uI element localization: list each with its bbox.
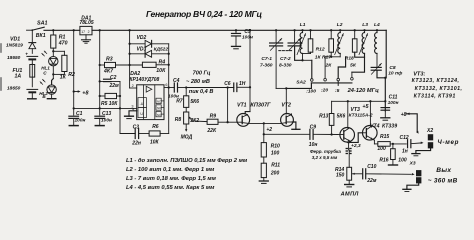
svg-text:Генератор ВЧ 0,24 - 120 МГц: Генератор ВЧ 0,24 - 120 МГц bbox=[146, 9, 262, 19]
svg-text:L4: L4 bbox=[374, 22, 380, 28]
svg-text:NC: NC bbox=[157, 106, 161, 110]
svg-text:22н: 22н bbox=[131, 141, 141, 147]
svg-text:АМПЛ: АМПЛ bbox=[340, 191, 359, 197]
node VT3 emitter bbox=[349, 141, 351, 142]
wire R14 wiper to C10 bbox=[352, 173, 362, 175]
svg-text:U: U bbox=[140, 112, 143, 116]
wire pin2 vertical bbox=[129, 30, 131, 65]
svg-text:R10: R10 bbox=[271, 143, 280, 149]
svg-text:R2: R2 bbox=[68, 72, 75, 78]
wire +8 bus bbox=[74, 107, 137, 109]
svg-text:КТ3114, КТ391: КТ3114, КТ391 bbox=[414, 94, 456, 100]
svg-text:~ 280 мВ: ~ 280 мВ bbox=[186, 79, 210, 85]
ground DA1 bbox=[85, 35, 87, 40]
wire to VT4 base bbox=[350, 133, 362, 143]
svg-text:С5: С5 bbox=[244, 29, 251, 35]
svg-text:NC: NC bbox=[157, 100, 161, 104]
wire tank3 bottom bbox=[355, 52, 365, 57]
svg-text:1К: 1К bbox=[60, 75, 67, 81]
wire C6 node vertical bbox=[227, 88, 229, 123]
wire +5 top bus bbox=[44, 29, 80, 31]
svg-text:VT3:: VT3: bbox=[413, 71, 425, 77]
svg-text:С6: С6 bbox=[224, 81, 231, 87]
switch SA2 contact 3 bbox=[338, 57, 345, 79]
svg-text:100: 100 bbox=[271, 150, 280, 156]
svg-text:пик 0,4 В: пик 0,4 В bbox=[189, 89, 214, 95]
svg-text:10К: 10К bbox=[109, 101, 119, 107]
svg-text:Ферр. трубка: Ферр. трубка bbox=[310, 148, 341, 154]
svg-text:78L05: 78L05 bbox=[80, 20, 94, 26]
svg-text:КД522: КД522 bbox=[154, 47, 169, 53]
wire feedback up bbox=[168, 88, 170, 134]
svg-text:С: С bbox=[43, 71, 47, 76]
svg-text:5К6: 5К6 bbox=[190, 99, 199, 105]
svg-text::20: :20 bbox=[321, 88, 328, 94]
svg-text:R17: R17 bbox=[322, 54, 331, 60]
label МОД bbox=[185, 124, 187, 131]
svg-text:100: 100 bbox=[398, 157, 407, 163]
svg-text:+: + bbox=[25, 52, 28, 57]
svg-text:10 пф: 10 пф bbox=[388, 69, 403, 76]
svg-text:24-120 МГц: 24-120 МГц bbox=[347, 88, 380, 94]
wire switch to diode bbox=[31, 30, 33, 41]
svg-text:L1: L1 bbox=[300, 22, 306, 28]
svg-text:VD1: VD1 bbox=[10, 36, 20, 42]
svg-text:200: 200 bbox=[270, 170, 280, 176]
svg-text:R6: R6 bbox=[152, 124, 159, 130]
svg-text:R16: R16 bbox=[379, 157, 388, 163]
svg-text:L3: L3 bbox=[362, 22, 368, 28]
wire VT3 collector bbox=[347, 101, 349, 128]
ground HL2 bbox=[51, 94, 53, 98]
wire DA1 out vertical bbox=[99, 30, 101, 108]
svg-text:2: 2 bbox=[88, 30, 90, 34]
svg-text:1н: 1н bbox=[402, 149, 408, 155]
ground R14 bbox=[348, 180, 350, 184]
wire R5C2 vertical bbox=[119, 81, 121, 133]
svg-text:100н: 100н bbox=[388, 100, 399, 106]
svg-text:ВК1: ВК1 bbox=[36, 33, 46, 39]
wire VT1 drain bbox=[249, 30, 251, 111]
svg-text::100: :100 bbox=[306, 88, 316, 94]
svg-text:КП307Г: КП307Г bbox=[250, 103, 271, 109]
svg-text::5: :5 bbox=[335, 88, 340, 94]
svg-text:R18: R18 bbox=[345, 56, 354, 62]
switch SA2 contact 2 bbox=[324, 78, 327, 81]
svg-text:5К6: 5К6 bbox=[337, 114, 346, 120]
svg-text:Вых: Вых bbox=[436, 167, 451, 174]
wire +8 vertical bbox=[73, 30, 75, 108]
svg-text:22К: 22К bbox=[206, 128, 217, 134]
wire L4 to C8 bbox=[376, 54, 378, 68]
svg-text:-U: -U bbox=[140, 102, 144, 106]
wire right rail bbox=[384, 30, 387, 111]
svg-text:1К: 1К bbox=[315, 54, 322, 60]
svg-text:18650: 18650 bbox=[7, 86, 21, 92]
ground X3 bbox=[407, 183, 419, 190]
wire source line bbox=[248, 122, 281, 124]
svg-text:17: 17 bbox=[81, 30, 85, 34]
svg-text:С2: С2 bbox=[110, 75, 117, 81]
svg-text:+2,3: +2,3 bbox=[351, 143, 361, 149]
svg-text:6: 6 bbox=[165, 83, 167, 87]
svg-text:R13: R13 bbox=[319, 114, 328, 120]
svg-text:R9: R9 bbox=[210, 113, 217, 119]
svg-text:1А: 1А bbox=[15, 74, 22, 80]
svg-text:МОД: МОД bbox=[181, 135, 193, 141]
svg-text:1N5819: 1N5819 bbox=[6, 43, 23, 49]
svg-text:3,2 х 9,5 мм: 3,2 х 9,5 мм bbox=[312, 155, 338, 160]
ground VT2 source bbox=[292, 122, 296, 129]
svg-text:R11: R11 bbox=[271, 162, 280, 168]
svg-text:КТ339: КТ339 bbox=[382, 124, 397, 130]
svg-text:VT3: VT3 bbox=[350, 107, 360, 113]
svg-text:С7-1: С7-1 bbox=[261, 56, 272, 62]
coupling dashed bbox=[279, 50, 292, 52]
svg-text:С7-2: С7-2 bbox=[280, 56, 291, 62]
svg-text:22м: 22м bbox=[109, 83, 120, 89]
svg-text:R8: R8 bbox=[175, 117, 182, 123]
switch SA2 contact 1 bbox=[311, 79, 314, 82]
ground X2 bbox=[416, 148, 431, 154]
svg-text:R7: R7 bbox=[176, 99, 183, 105]
svg-text:NC: NC bbox=[157, 113, 161, 117]
svg-text:4К7: 4К7 bbox=[103, 68, 114, 74]
svg-text:470: 470 bbox=[58, 40, 68, 46]
svg-text:КТ3123, КТ3124,: КТ3123, КТ3124, bbox=[412, 78, 460, 84]
svg-text:18650: 18650 bbox=[7, 55, 21, 61]
svg-text:КТ3132, КТ3101,: КТ3132, КТ3101, bbox=[415, 86, 463, 92]
svg-text:10н: 10н bbox=[309, 142, 318, 148]
svg-text:2К: 2К bbox=[325, 63, 333, 69]
svg-text:10К: 10К bbox=[150, 140, 160, 146]
wire VT4 collector bbox=[369, 101, 371, 126]
wire VT2 drain bbox=[290, 113, 292, 116]
svg-text:Х2: Х2 bbox=[426, 128, 433, 134]
svg-text:+8: +8 bbox=[82, 90, 88, 96]
svg-text:R12: R12 bbox=[316, 46, 325, 52]
svg-text:7-360: 7-360 bbox=[260, 63, 273, 69]
svg-text:150: 150 bbox=[336, 172, 345, 178]
svg-text:С8: С8 bbox=[389, 65, 396, 71]
svg-text:22м: 22м bbox=[366, 178, 377, 184]
svg-text:+2: +2 bbox=[266, 127, 272, 133]
svg-text:~ 360 мВ: ~ 360 мВ bbox=[428, 178, 458, 185]
svg-text:Х3: Х3 bbox=[409, 160, 416, 166]
svg-text:С11: С11 bbox=[389, 95, 398, 101]
switch SA2 contact 4 bbox=[352, 57, 365, 72]
svg-text:Ч-мер: Ч-мер bbox=[437, 139, 459, 146]
svg-text:L1 - до заполн. ПЭЛШО 0,15 мм: L1 - до заполн. ПЭЛШО 0,15 мм Ферр 2 мм bbox=[126, 158, 248, 164]
svg-text:10К: 10К bbox=[156, 68, 166, 74]
wire C7-1 to stem bbox=[276, 87, 286, 89]
svg-text:L2 - 100 вит 0,1 мм. Ферр 1 мм: L2 - 100 вит 0,1 мм. Ферр 1 мм bbox=[126, 167, 215, 173]
svg-text:L2: L2 bbox=[337, 22, 343, 28]
ground R11 bbox=[263, 178, 265, 181]
wire output pin6 bbox=[164, 87, 169, 89]
svg-text:8-330: 8-330 bbox=[279, 63, 292, 69]
svg-text:+5: +5 bbox=[362, 104, 369, 110]
svg-text:VT1: VT1 bbox=[237, 103, 247, 109]
+5 line bbox=[332, 100, 386, 102]
wire to C9 bbox=[264, 133, 310, 135]
svg-text:2: 2 bbox=[132, 84, 134, 88]
ground pin4 bbox=[129, 111, 137, 116]
svg-text:5К: 5К bbox=[350, 63, 357, 69]
svg-text:КТ3115А-2: КТ3115А-2 bbox=[349, 113, 373, 119]
svg-text:КР140УД708: КР140УД708 bbox=[129, 77, 159, 83]
svg-text:L3 - 7 вит 0,18 мм. Ферр 1,5 м: L3 - 7 вит 0,18 мм. Ферр 1,5 мм bbox=[126, 176, 217, 182]
svg-text:R5: R5 bbox=[101, 101, 108, 107]
ground battery bbox=[31, 92, 33, 99]
svg-text:L4 - 4,5 вит 0,55 мм. Карк 5 м: L4 - 4,5 вит 0,55 мм. Карк 5 мм bbox=[126, 185, 215, 191]
svg-text:SA1: SA1 bbox=[37, 20, 48, 26]
wire tank2 bottom bbox=[325, 56, 340, 58]
wire tank1 bottom bbox=[303, 53, 311, 55]
svg-text:100н: 100н bbox=[242, 35, 253, 41]
wire gate VT1 bbox=[228, 121, 237, 123]
svg-text:1Н: 1Н bbox=[239, 81, 246, 87]
wire feedback vertical bbox=[168, 44, 170, 88]
svg-text:700 Гц: 700 Гц bbox=[193, 71, 211, 77]
node C bbox=[52, 73, 54, 75]
svg-text:SA2: SA2 bbox=[296, 79, 306, 85]
svg-text:R15: R15 bbox=[380, 134, 389, 140]
svg-text:С10: С10 bbox=[367, 164, 376, 170]
svg-text:R3: R3 bbox=[106, 56, 113, 62]
svg-text:+8: +8 bbox=[401, 112, 407, 118]
